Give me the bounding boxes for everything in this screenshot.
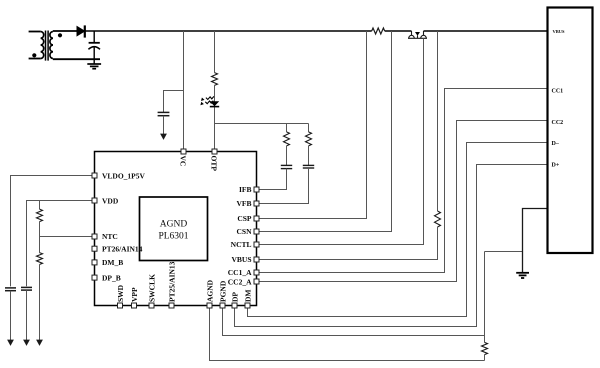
svg-text:VBUS: VBUS — [231, 255, 251, 264]
wire VFB chain to pin — [257, 168, 309, 204]
wire NTC node — [40, 222, 95, 253]
pin PT25/AIN13 — [169, 303, 174, 308]
pin OTP — [212, 149, 217, 154]
diode D1 — [77, 25, 85, 37]
pin VC — [181, 149, 186, 154]
svg-text:PGND: PGND — [218, 280, 227, 302]
LED D2 photodiode — [200, 96, 219, 106]
pin DP_B — [92, 275, 97, 280]
capacitor C1 bulk — [88, 31, 100, 59]
pin VLDO_1P5V — [92, 173, 97, 178]
ground earth under C1 — [87, 59, 101, 68]
wire NCTL to gate — [257, 38, 424, 244]
capacitor C5 on VLDO — [5, 288, 16, 291]
svg-text:VFB: VFB — [237, 199, 252, 208]
svg-text:CSP: CSP — [237, 214, 252, 223]
ground earth under connector — [516, 273, 529, 278]
wire secondary top to diode anode — [53, 30, 77, 32]
pin AGND — [207, 303, 212, 308]
svg-text:SWD: SWD — [116, 284, 125, 302]
svg-text:SWCLK: SWCLK — [147, 274, 156, 302]
wire VLDO_1P5V to cap — [11, 176, 95, 287]
resistor R8 VDD to NTC — [39, 201, 41, 210]
resistor R4 VFB chain — [308, 124, 310, 132]
wire CSP — [257, 31, 367, 219]
transformer T1 primary winding — [41, 32, 44, 59]
transformer T1 secondary polarity dot — [58, 33, 62, 37]
wire top VBUS rail — [85, 30, 548, 32]
svg-text:CC2_A: CC2_A — [228, 277, 252, 286]
svg-text:AGND: AGND — [160, 220, 188, 230]
wire VBUS drop from rail — [437, 31, 439, 211]
wire IFB chain to pin — [257, 169, 287, 190]
svg-text:VC: VC — [179, 156, 188, 167]
transformer T1 core — [46, 31, 49, 61]
capacitor C6 on VDD — [21, 287, 32, 290]
wire CC2 net — [257, 121, 548, 282]
pin CSN — [254, 229, 259, 234]
wire CC1 net — [257, 89, 548, 273]
resistor R5 current sense on rail — [372, 28, 385, 34]
pin PT26/AIN14 — [92, 246, 97, 251]
pin DM — [245, 303, 250, 308]
transformer T1 primary top stub — [29, 31, 41, 33]
pin DP — [232, 303, 237, 308]
resistor R9 NTC to gnd — [37, 253, 43, 265]
svg-text:D–: D– — [552, 141, 560, 147]
svg-text:DM: DM — [243, 290, 252, 303]
capacitor C2 on VC — [158, 112, 170, 115]
svg-text:VDD: VDD — [102, 196, 119, 205]
pin SWCLK — [149, 303, 154, 308]
ground arrow under C6 — [26, 290, 28, 340]
wire VC cap branch — [164, 91, 184, 113]
pin NCTL — [254, 242, 259, 247]
op-amp U1 PL6301 outer body — [95, 152, 257, 306]
wire AGND net — [210, 306, 485, 361]
wire OTP drop from rail — [214, 31, 216, 152]
wire shield to gnd stem — [485, 251, 523, 253]
svg-text:DM_B: DM_B — [102, 258, 123, 267]
resistor R2 on OTP branch — [212, 73, 218, 86]
svg-text:IFB: IFB — [239, 185, 252, 194]
pin NTC — [92, 234, 97, 239]
pin CSP — [254, 216, 259, 221]
wire connector GND — [523, 209, 548, 273]
pin CC2_A — [254, 279, 259, 284]
svg-text:NCTL: NCTL — [231, 240, 252, 249]
svg-text:OTP: OTP — [210, 156, 219, 172]
connector J1 USB receptacle — [548, 8, 593, 254]
wire PGND net — [223, 306, 485, 336]
pin VBUS — [254, 257, 259, 262]
wire DM to D- net — [248, 143, 548, 317]
pin VDD — [92, 198, 97, 203]
svg-text:PT25/AIN13: PT25/AIN13 — [167, 261, 176, 302]
wire VBUS to pin — [257, 227, 438, 260]
op-amp U1 inner AGND box — [140, 197, 208, 261]
pin CC1_A — [254, 270, 259, 275]
transformer T1 secondary winding — [50, 32, 53, 59]
svg-text:VPP: VPP — [130, 287, 139, 302]
wire OTP junction to feedback networks — [215, 123, 309, 125]
pin SWD — [118, 303, 123, 308]
transformer T1 primary polarity dot — [32, 53, 36, 57]
pin DM_B — [92, 260, 97, 265]
pin IFB — [254, 187, 259, 192]
svg-text:DP: DP — [230, 292, 239, 302]
resistor R3 IFB chain — [286, 124, 288, 132]
svg-text:CSN: CSN — [236, 227, 252, 236]
resistor R7 AGND-shield — [482, 342, 488, 354]
resistor R6 VBUS pullup — [435, 211, 441, 227]
transformer T1 primary bottom stub — [29, 58, 41, 60]
svg-text:CC2: CC2 — [552, 120, 564, 126]
svg-text:VLDO_1P5V: VLDO_1P5V — [102, 171, 146, 180]
transistor Q1 PMOS switch — [408, 31, 427, 38]
svg-text:NTC: NTC — [102, 232, 118, 241]
wire VDD to cap — [27, 201, 95, 287]
wire shield vertical — [484, 252, 486, 343]
svg-text:CC1_A: CC1_A — [228, 268, 252, 277]
wire secondary bottom rail to ground — [53, 58, 100, 60]
wire CSN — [257, 31, 392, 232]
capacitor C4 VFB chain — [308, 146, 310, 165]
svg-text:PL6301: PL6301 — [158, 232, 188, 242]
pin PGND — [220, 303, 225, 308]
ground arrow under R9 — [39, 265, 41, 341]
svg-text:D+: D+ — [552, 163, 560, 169]
ground arrow under C2 — [163, 116, 165, 134]
ground arrow under C5 — [10, 291, 12, 340]
svg-text:VBUS: VBUS — [553, 29, 566, 34]
svg-text:AGND: AGND — [205, 279, 214, 302]
svg-text:DP_B: DP_B — [102, 273, 121, 282]
svg-text:CC1: CC1 — [552, 89, 564, 95]
svg-text:PT26/AIN14: PT26/AIN14 — [102, 244, 143, 253]
wire VC drop from rail — [183, 31, 185, 152]
pin VPP — [132, 303, 137, 308]
wire DP to D+ net — [235, 165, 548, 327]
capacitor C3 IFB chain — [286, 146, 288, 165]
pin VFB — [254, 201, 259, 206]
